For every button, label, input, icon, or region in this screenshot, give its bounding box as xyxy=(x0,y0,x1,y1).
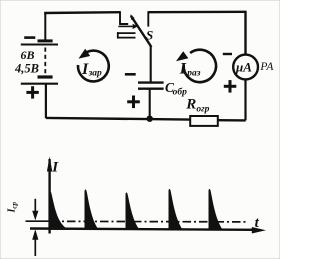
svg-text:R: R xyxy=(185,97,196,113)
wire right vertical (meter to bottom rail) xyxy=(244,80,246,120)
axis t horizontal xyxy=(30,229,253,230)
switch S left stub xyxy=(119,12,121,24)
current pulse 4 xyxy=(169,189,183,230)
wire top rail right segment xyxy=(148,11,247,14)
capacitor plus sign xyxy=(127,96,140,109)
current pulse 5 xyxy=(209,189,223,230)
svg-text:огр: огр xyxy=(196,104,209,114)
wire left vertical (battery to bottom rail) xyxy=(45,84,47,119)
wire bottom rail left segment xyxy=(46,118,190,120)
average level dash-dot line xyxy=(51,220,249,223)
wire top rail left segment xyxy=(44,11,121,14)
svg-text:μА: μА xyxy=(235,59,252,74)
wire left vertical (rail to battery) xyxy=(44,12,46,40)
dimension arrow upper xyxy=(34,199,36,213)
switch S blade xyxy=(131,16,152,47)
wire switch to capacitor xyxy=(150,46,152,82)
wire capacitor to bottom rail xyxy=(149,89,151,119)
svg-text:I: I xyxy=(51,160,59,176)
microammeter PA circle xyxy=(233,55,258,80)
average level tick xyxy=(26,220,51,222)
capacitor C top plate xyxy=(138,81,164,83)
switch S right stub xyxy=(147,12,149,27)
current pulse 3 xyxy=(126,192,140,229)
svg-text:обр: обр xyxy=(173,87,187,98)
current pulse 1 xyxy=(49,191,68,229)
switch S lower contact bracket xyxy=(118,32,136,34)
battery cell 2 long plate xyxy=(21,83,58,85)
capacitor minus sign xyxy=(125,73,136,76)
svg-text:6В: 6В xyxy=(21,48,35,62)
svg-text:РА: РА xyxy=(259,61,274,73)
resistor R ogr box xyxy=(190,116,218,126)
dimension arrow lower xyxy=(34,239,36,257)
axis I vertical xyxy=(48,159,50,234)
battery cell 2 short plate xyxy=(38,75,53,78)
wire right vertical top (rail to meter) xyxy=(244,12,246,54)
meter plus sign xyxy=(224,80,237,93)
node junction dot xyxy=(147,116,153,122)
discharging loop arrow I raz xyxy=(184,50,216,82)
svg-text:зар: зар xyxy=(88,68,102,78)
svg-text:S: S xyxy=(146,28,153,43)
wire bottom rail right segment xyxy=(218,119,246,122)
capacitor C bottom plate xyxy=(138,87,164,89)
battery cell 1 long plate xyxy=(21,44,58,46)
switch S upper fixed contact xyxy=(119,23,128,25)
label I sr (rotated) xyxy=(7,201,19,213)
meter minus sign xyxy=(223,53,232,55)
svg-text:4,5В: 4,5В xyxy=(14,61,39,75)
battery GB minus sign xyxy=(24,36,35,39)
charging loop arrow I zar xyxy=(78,51,109,82)
current pulse 2 xyxy=(85,189,99,229)
battery cell 1 short plate xyxy=(38,39,53,42)
svg-text:раз: раз xyxy=(186,68,201,78)
switch S moving contact arrow xyxy=(118,25,132,27)
wire dashed between cells xyxy=(44,48,46,76)
battery plus sign xyxy=(26,86,38,98)
svg-text:I: I xyxy=(179,60,187,77)
